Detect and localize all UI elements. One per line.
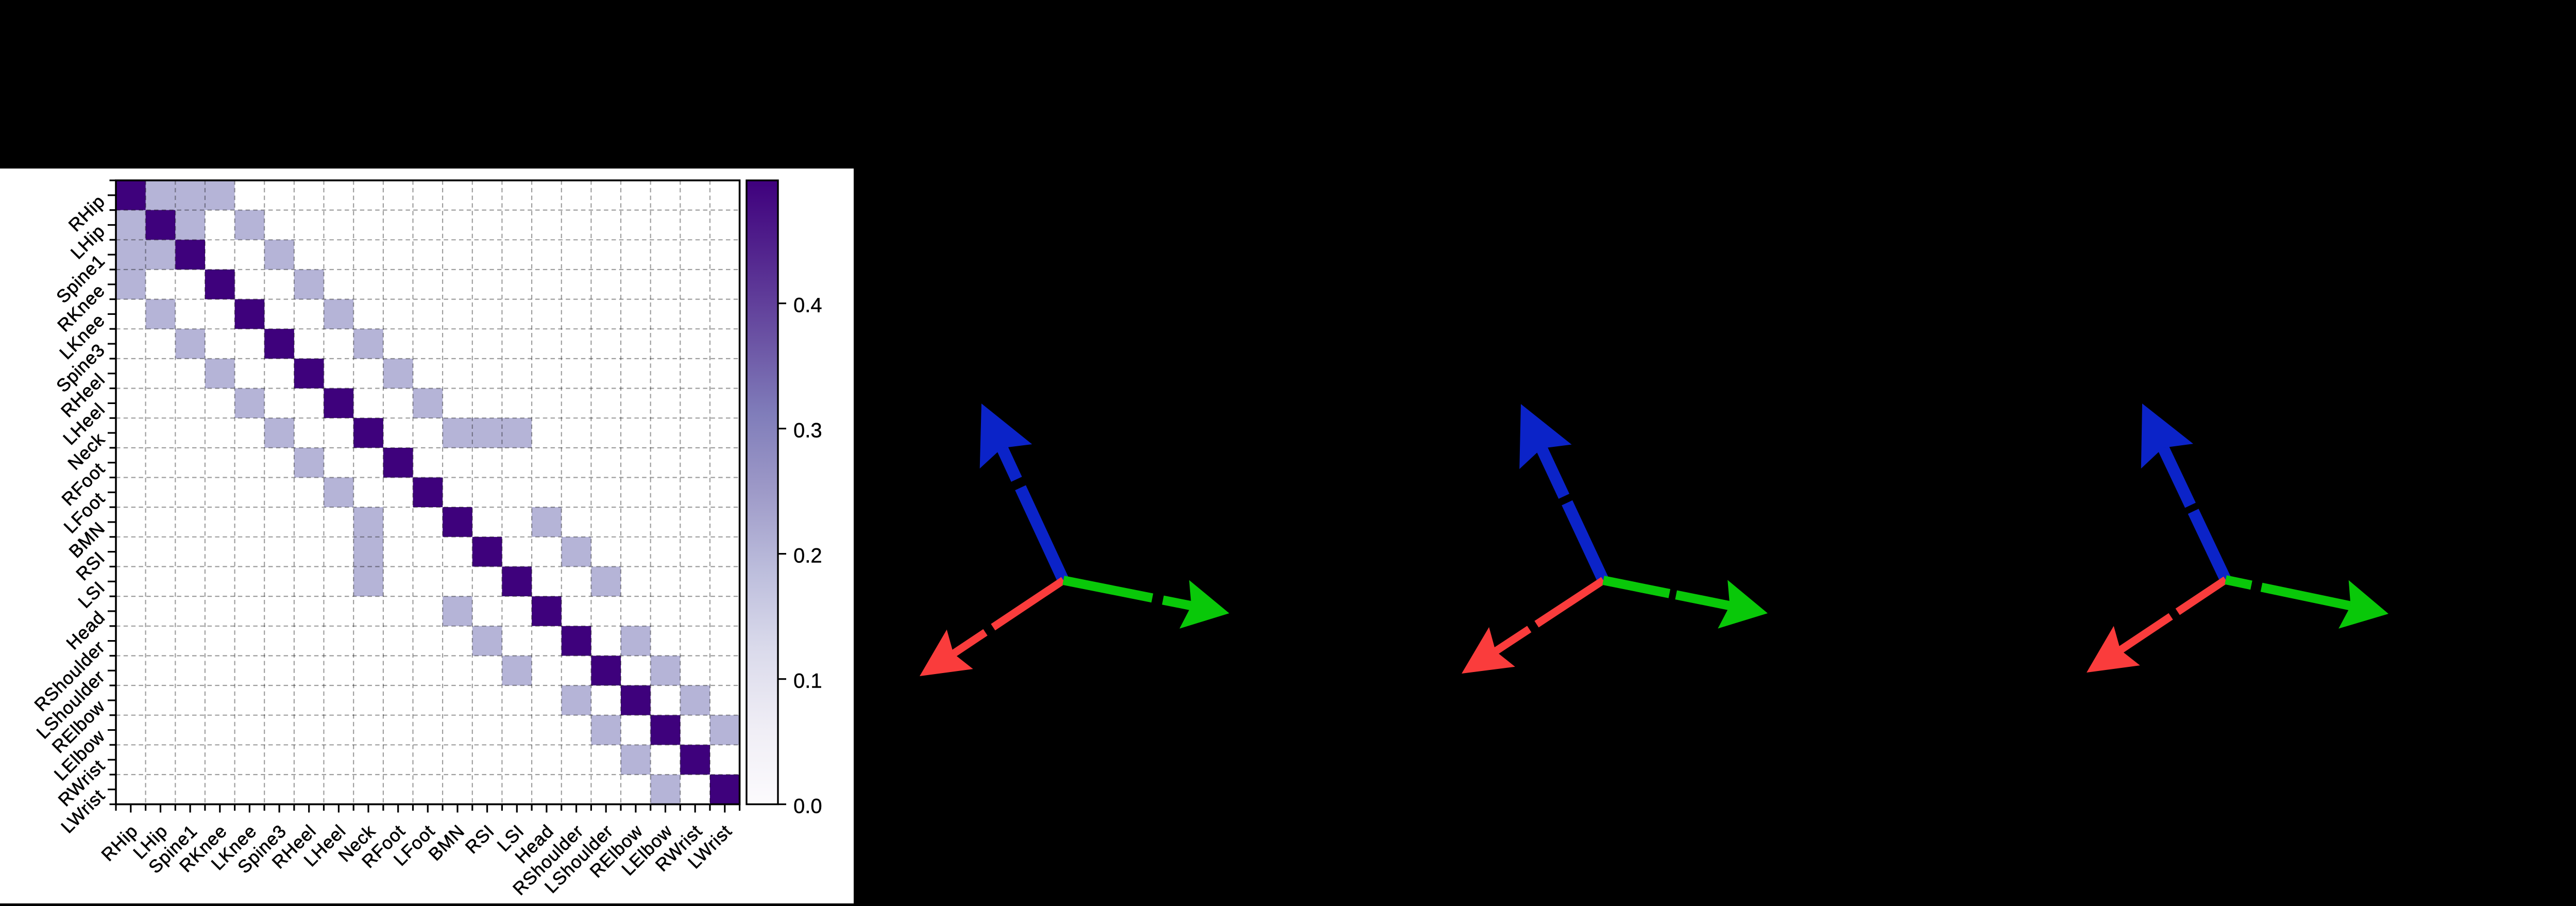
svg-text:0.0: 0.0	[793, 795, 822, 818]
frame 3 z-axis (blue)	[2141, 404, 2226, 580]
frame 3 y-axis (green)	[2226, 580, 2388, 629]
svg-text:0.4: 0.4	[793, 294, 822, 317]
frame 2 y-axis (green)	[1603, 580, 1768, 628]
dashed grid lines	[145, 180, 146, 804]
svg-text:0.3: 0.3	[793, 420, 822, 442]
frame 1 z-axis (blue)	[980, 404, 1063, 580]
colorbar ticks and labels	[778, 803, 786, 805]
frame 1 y-axis (green)	[1063, 580, 1229, 629]
heatmap adjacency-matrix cells	[146, 180, 176, 210]
frame 2 x-axis (red)	[1462, 580, 1603, 674]
axis tick marks	[110, 179, 116, 181]
white figure panel	[0, 169, 854, 903]
svg-text:0.1: 0.1	[793, 670, 822, 693]
frame 1 x-axis (red)	[920, 580, 1063, 676]
heatmap axes frame	[116, 180, 740, 804]
frame 2 z-axis (blue)	[1519, 404, 1603, 580]
frame 3 x-axis (red)	[2087, 580, 2226, 673]
svg-text:0.2: 0.2	[793, 545, 822, 567]
